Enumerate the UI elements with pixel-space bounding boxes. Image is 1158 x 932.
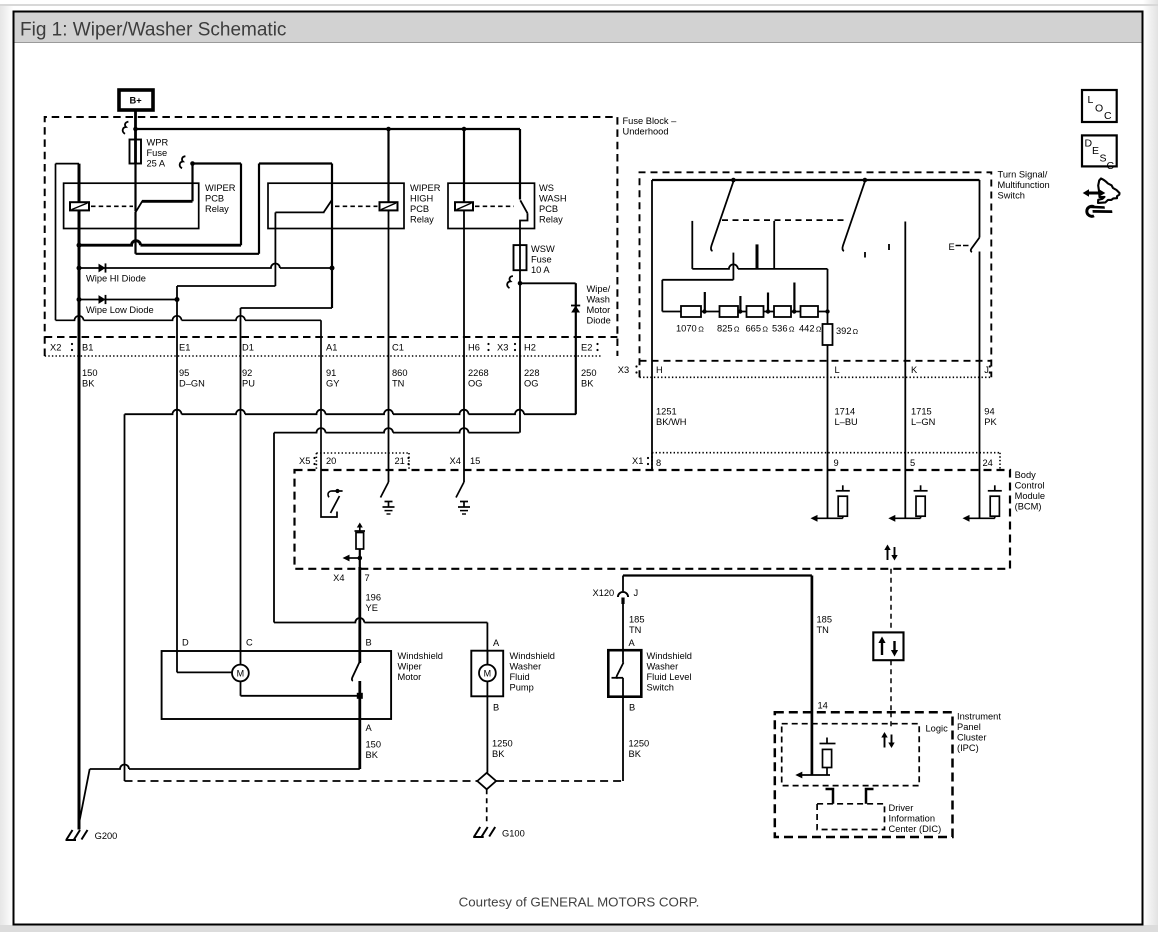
- svg-text:1250: 1250: [629, 739, 650, 749]
- svg-text:Fuse: Fuse: [147, 148, 168, 158]
- svg-text:A: A: [366, 723, 373, 733]
- svg-text:196: 196: [366, 593, 382, 603]
- svg-text:Fluid: Fluid: [510, 672, 530, 682]
- svg-text:Wiper: Wiper: [398, 662, 422, 672]
- svg-text:(BCM): (BCM): [1015, 502, 1042, 512]
- svg-text:E: E: [949, 242, 955, 252]
- svg-text:X3: X3: [497, 343, 508, 353]
- svg-text:GY: GY: [326, 379, 339, 389]
- svg-text:1715: 1715: [911, 407, 932, 417]
- svg-text:10 A: 10 A: [531, 265, 550, 275]
- svg-text:L: L: [1088, 94, 1094, 106]
- svg-text:21: 21: [395, 456, 405, 466]
- svg-text:Fuse Block –: Fuse Block –: [623, 116, 678, 126]
- svg-text:Switch: Switch: [998, 191, 1025, 201]
- svg-text:OG: OG: [524, 379, 538, 389]
- svg-text:BK: BK: [629, 749, 642, 759]
- svg-text:WIPER: WIPER: [410, 183, 441, 193]
- svg-text:Relay: Relay: [410, 215, 434, 225]
- svg-text:X1: X1: [632, 456, 643, 466]
- svg-text:O: O: [1095, 103, 1103, 115]
- svg-text:OG: OG: [468, 379, 482, 389]
- svg-text:Instrument: Instrument: [957, 712, 1001, 722]
- svg-text:250: 250: [581, 368, 597, 378]
- svg-text:1070: 1070: [676, 324, 697, 334]
- svg-text:Ω: Ω: [762, 325, 768, 334]
- svg-text:Motor: Motor: [398, 672, 422, 682]
- svg-text:(IPC): (IPC): [957, 743, 979, 753]
- svg-text:HIGH: HIGH: [410, 194, 433, 204]
- svg-text:Ω: Ω: [698, 325, 704, 334]
- svg-text:Relay: Relay: [205, 204, 229, 214]
- svg-text:WIPER: WIPER: [205, 183, 236, 193]
- svg-text:Control: Control: [1015, 481, 1045, 491]
- svg-text:B: B: [629, 703, 635, 713]
- svg-text:Relay: Relay: [539, 215, 563, 225]
- svg-text:PCB: PCB: [205, 194, 224, 204]
- svg-text:BK/WH: BK/WH: [656, 417, 686, 427]
- svg-text:X2: X2: [50, 343, 61, 353]
- svg-text:J: J: [634, 588, 639, 598]
- svg-text:TN: TN: [629, 625, 641, 635]
- svg-text:PK: PK: [984, 417, 997, 427]
- svg-text:PU: PU: [242, 379, 255, 389]
- svg-text:M: M: [237, 669, 245, 679]
- svg-text:Center (DIC): Center (DIC): [889, 824, 942, 834]
- svg-text:BK: BK: [82, 379, 95, 389]
- svg-text:B: B: [366, 638, 372, 648]
- svg-text:442: 442: [799, 324, 815, 334]
- svg-text:92: 92: [242, 368, 252, 378]
- svg-text:H6: H6: [468, 343, 480, 353]
- svg-text:Logic: Logic: [926, 724, 949, 734]
- svg-text:Diode: Diode: [587, 316, 611, 326]
- svg-text:1714: 1714: [835, 407, 856, 417]
- svg-text:Wipe HI Diode: Wipe HI Diode: [86, 274, 146, 284]
- svg-text:K: K: [911, 365, 918, 375]
- svg-text:E1: E1: [179, 343, 190, 353]
- svg-text:Ω: Ω: [734, 325, 740, 334]
- svg-text:665: 665: [746, 324, 762, 334]
- svg-text:Multifunction: Multifunction: [998, 180, 1050, 190]
- svg-text:Panel: Panel: [957, 722, 981, 732]
- svg-text:D–GN: D–GN: [179, 379, 205, 389]
- svg-text:536: 536: [772, 324, 788, 334]
- svg-text:PCB: PCB: [410, 204, 429, 214]
- svg-text:H: H: [656, 365, 663, 375]
- svg-text:X4: X4: [450, 456, 461, 466]
- svg-text:L: L: [835, 365, 840, 375]
- svg-text:WASH: WASH: [539, 194, 567, 204]
- svg-text:C: C: [1107, 160, 1115, 172]
- svg-text:WSW: WSW: [531, 244, 555, 254]
- svg-text:Windshield: Windshield: [647, 651, 692, 661]
- svg-text:D: D: [182, 638, 189, 648]
- svg-text:G200: G200: [95, 831, 118, 841]
- svg-text:BK: BK: [581, 379, 594, 389]
- svg-text:D1: D1: [242, 343, 254, 353]
- svg-text:WS: WS: [539, 183, 554, 193]
- svg-text:95: 95: [179, 368, 189, 378]
- svg-text:A1: A1: [326, 343, 337, 353]
- svg-text:9: 9: [834, 458, 839, 468]
- svg-text:91: 91: [326, 368, 336, 378]
- svg-text:L–BU: L–BU: [835, 417, 858, 427]
- svg-text:Windshield: Windshield: [398, 651, 443, 661]
- svg-text:Wash: Wash: [587, 295, 610, 305]
- svg-text:Fig 1: Wiper/Washer Schematic: Fig 1: Wiper/Washer Schematic: [20, 20, 286, 41]
- svg-text:25 A: 25 A: [147, 159, 166, 169]
- svg-text:B: B: [493, 703, 499, 713]
- svg-text:Wipe Low Diode: Wipe Low Diode: [86, 305, 154, 315]
- svg-text:Body: Body: [1015, 470, 1037, 480]
- svg-text:YE: YE: [366, 603, 378, 613]
- svg-text:Module: Module: [1015, 491, 1046, 501]
- svg-text:Turn Signal/: Turn Signal/: [998, 170, 1048, 180]
- svg-text:Driver: Driver: [889, 803, 914, 813]
- svg-text:S: S: [1100, 153, 1107, 165]
- svg-text:20: 20: [326, 456, 336, 466]
- svg-text:Motor: Motor: [587, 305, 611, 315]
- svg-text:Fuse: Fuse: [531, 255, 552, 265]
- svg-text:G100: G100: [502, 829, 525, 839]
- svg-text:L–GN: L–GN: [911, 417, 935, 427]
- svg-text:A: A: [493, 638, 500, 648]
- svg-text:1250: 1250: [492, 739, 513, 749]
- svg-text:24: 24: [983, 458, 993, 468]
- svg-text:TN: TN: [817, 625, 829, 635]
- svg-text:392: 392: [836, 326, 852, 336]
- svg-text:M: M: [484, 669, 492, 679]
- svg-text:BK: BK: [492, 749, 505, 759]
- svg-text:A: A: [629, 638, 636, 648]
- svg-text:X4: X4: [333, 573, 344, 583]
- svg-text:Courtesy of GENERAL MOTORS COR: Courtesy of GENERAL MOTORS CORP.: [459, 895, 700, 910]
- svg-text:Windshield: Windshield: [510, 651, 555, 661]
- svg-text:150: 150: [366, 740, 382, 750]
- svg-text:Washer: Washer: [510, 662, 542, 672]
- svg-text:Ω: Ω: [789, 325, 795, 334]
- svg-text:BK: BK: [366, 750, 379, 760]
- svg-text:Information: Information: [889, 814, 936, 824]
- svg-text:860: 860: [392, 368, 408, 378]
- svg-text:8: 8: [656, 458, 661, 468]
- svg-text:Pump: Pump: [510, 683, 534, 693]
- svg-text:Ω: Ω: [853, 327, 859, 336]
- svg-text:B+: B+: [130, 96, 143, 106]
- svg-text:H2: H2: [524, 343, 536, 353]
- svg-text:94: 94: [984, 407, 994, 417]
- svg-text:Switch: Switch: [647, 683, 674, 693]
- svg-text:TN: TN: [392, 379, 404, 389]
- svg-text:2268: 2268: [468, 368, 489, 378]
- svg-text:Underhood: Underhood: [623, 127, 669, 137]
- svg-text:150: 150: [82, 368, 98, 378]
- svg-text:185: 185: [629, 615, 645, 625]
- svg-text:14: 14: [818, 701, 828, 711]
- svg-text:228: 228: [524, 368, 540, 378]
- svg-text:Ω: Ω: [816, 325, 822, 334]
- svg-text:C: C: [1104, 110, 1112, 122]
- svg-text:15: 15: [470, 456, 480, 466]
- svg-text:Washer: Washer: [647, 662, 679, 672]
- svg-text:Cluster: Cluster: [957, 733, 986, 743]
- svg-text:Fluid Level: Fluid Level: [647, 672, 692, 682]
- svg-text:X120: X120: [593, 588, 615, 598]
- svg-text:C1: C1: [392, 343, 404, 353]
- svg-text:825: 825: [717, 324, 733, 334]
- svg-text:X3: X3: [618, 365, 629, 375]
- svg-text:J: J: [984, 365, 989, 375]
- svg-text:WPR: WPR: [147, 138, 169, 148]
- svg-text:C: C: [246, 638, 253, 648]
- svg-text:E2: E2: [581, 343, 592, 353]
- svg-text:185: 185: [817, 615, 833, 625]
- svg-text:1251: 1251: [656, 407, 677, 417]
- svg-text:7: 7: [365, 573, 370, 583]
- svg-text:Wipe/: Wipe/: [587, 284, 611, 294]
- svg-text:5: 5: [910, 458, 915, 468]
- svg-text:B1: B1: [82, 343, 93, 353]
- svg-text:E: E: [1092, 145, 1099, 157]
- svg-text:X5: X5: [299, 456, 310, 466]
- svg-text:PCB: PCB: [539, 204, 558, 214]
